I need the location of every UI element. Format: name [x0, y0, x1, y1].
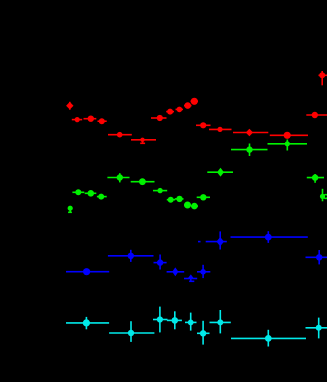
green point G15: [268, 140, 308, 151]
blue point B6: [197, 265, 210, 278]
green point G3: [85, 190, 97, 197]
red point R3: [84, 116, 97, 122]
cyan point C3: [153, 307, 168, 333]
green point G16: [307, 174, 324, 183]
red point R12: [196, 122, 211, 128]
blue point B1: [66, 268, 109, 275]
red point R2: [72, 117, 82, 122]
red point R8: [166, 109, 174, 115]
blue point B7: [198, 231, 227, 249]
red point R17: [319, 71, 327, 85]
red point R5: [108, 132, 132, 138]
cyan point C1: [66, 317, 109, 329]
green point G2: [72, 189, 84, 195]
cyan point C8: [231, 330, 306, 347]
red point R16: [306, 112, 327, 118]
blue point B9: [306, 250, 327, 264]
blue point B3: [154, 255, 167, 270]
red point R15: [270, 132, 308, 139]
green point G4: [97, 194, 107, 200]
blue point B8: [231, 231, 308, 243]
green point G12: [197, 194, 210, 200]
green point G7: [153, 188, 167, 193]
cyan point C2: [109, 321, 154, 342]
green point G5: [107, 173, 129, 182]
red point R11: [191, 98, 199, 105]
green point G14: [231, 144, 268, 157]
green point G13: [207, 168, 233, 177]
green series: [68, 140, 327, 213]
red series: [66, 71, 327, 143]
green point G9: [175, 196, 184, 202]
cyan point C5: [185, 313, 197, 331]
cyan point C6: [197, 321, 210, 345]
green point G8: [167, 197, 175, 203]
red point R1: [66, 102, 73, 110]
red point R10: [184, 102, 192, 109]
green point G1: [68, 206, 73, 213]
cyan point C4: [167, 311, 182, 329]
blue point B5: [184, 274, 197, 281]
blue point B2: [108, 250, 154, 262]
blue point B4: [167, 267, 185, 276]
green point G6: [131, 178, 155, 185]
red point R13: [209, 127, 232, 132]
cyan point C9: [306, 318, 327, 339]
red point R4: [98, 118, 107, 124]
red point R14: [233, 129, 268, 136]
green point G10: [184, 202, 191, 209]
green point G17: [320, 189, 327, 202]
cyan point C7: [210, 310, 231, 333]
green point G11: [191, 203, 198, 210]
blue series: [66, 231, 327, 281]
red point R6: [131, 138, 156, 144]
red point R7: [151, 115, 167, 121]
cyan series: [66, 307, 327, 347]
red point R9: [176, 107, 184, 113]
